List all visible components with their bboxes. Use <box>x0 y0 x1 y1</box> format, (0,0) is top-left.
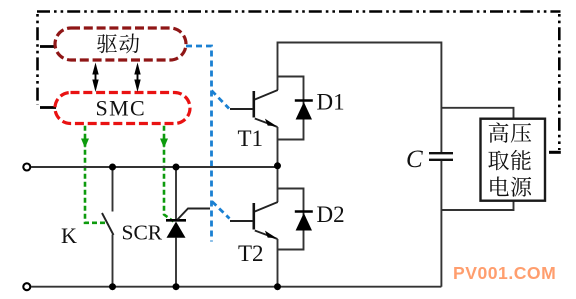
diode D2 triangle <box>296 213 312 231</box>
svg-text:PV001.COM: PV001.COM <box>453 263 556 283</box>
blue branch to T1 base <box>212 91 230 109</box>
text 驱动 <box>97 34 117 53</box>
svg-text:SCR: SCR <box>122 221 163 245</box>
capacitor lower wire <box>440 161 442 287</box>
junction dot (176,286.7) <box>173 283 180 290</box>
SCR cathode bar <box>166 219 186 222</box>
diode D1 triangle <box>296 102 312 120</box>
top wire from T1 collector to right branch <box>278 43 442 153</box>
connector stub to SMC block <box>40 106 56 109</box>
svg-text:SMC: SMC <box>95 96 146 121</box>
svg-text:D2: D2 <box>317 202 345 227</box>
junction dot (176,167) <box>173 164 180 171</box>
power box bottom wire <box>441 201 513 210</box>
bottom rail wire <box>31 286 441 288</box>
double-headed arrow 1 between drive and SMC <box>95 67 97 87</box>
transistor T2 emitter lead <box>255 231 278 240</box>
transistor T1 emitter lead <box>255 119 278 128</box>
capacitor C plate bottom <box>429 159 453 161</box>
blue drive line from drive block <box>186 46 212 242</box>
diode D2 cathode bar <box>295 210 313 213</box>
SMC block stadium <box>55 93 190 124</box>
svg-text:T1: T1 <box>238 126 264 151</box>
dash-dot boundary top <box>37 10 561 13</box>
switch K blade <box>102 213 114 235</box>
double-headed arrow 2 between drive and SMC <box>137 67 139 87</box>
transistor T2 emitter arrowhead <box>265 231 277 238</box>
junction dot (112.5,167) <box>109 164 116 171</box>
junction dot (112.5,286.7) <box>109 283 116 290</box>
switch K upper wire <box>112 167 114 212</box>
transistor T1 base bar <box>253 91 256 118</box>
dash-dot boundary right <box>558 14 561 150</box>
top rail wire <box>31 166 278 168</box>
junction dot (277.5,286.7) <box>274 283 281 290</box>
input terminal top <box>23 164 30 171</box>
green arrowhead 1 <box>81 139 89 149</box>
transistor T2 base bar <box>253 203 256 230</box>
drive block stadium <box>55 28 186 60</box>
junction dot (277.5,165.8) <box>274 162 281 169</box>
text 取能 <box>488 151 509 171</box>
transistor T2 base lead <box>230 220 253 222</box>
connector stub to drive block <box>40 45 56 48</box>
text 高压 <box>489 122 509 142</box>
switch K lower wire <box>112 235 114 287</box>
svg-text:C: C <box>406 146 423 173</box>
T2 collector wire from mid node <box>277 167 279 202</box>
T1 emitter wire to mid node <box>277 127 279 167</box>
diode D1 branch wire <box>278 77 304 140</box>
diode D2 branch wire <box>278 189 304 250</box>
diode D1 cathode bar <box>295 99 313 102</box>
dash-dot boundary left <box>36 14 39 105</box>
green control line to switch K <box>85 126 107 223</box>
transistor T1 collector lead <box>255 90 278 100</box>
T2 emitter wire to bottom rail <box>277 239 279 287</box>
svg-text:D1: D1 <box>317 90 345 115</box>
SCR triangle <box>167 222 186 238</box>
input terminal bottom <box>23 283 30 290</box>
SCR anode wire <box>175 238 177 287</box>
capacitor C plate top <box>429 152 453 154</box>
power box 高压取能电源 <box>481 119 546 201</box>
svg-text:K: K <box>61 223 77 248</box>
transistor T2 collector lead <box>255 202 278 212</box>
svg-text:T2: T2 <box>238 241 264 266</box>
text 电源 <box>490 176 508 196</box>
transistor T1 base lead <box>230 108 253 110</box>
SCR cathode wire <box>175 167 177 221</box>
boundary end hook bottom-right <box>549 151 561 154</box>
transistor T1 emitter arrowhead <box>265 119 277 126</box>
green arrowhead 2 <box>160 139 168 149</box>
green control line to SCR gate <box>164 126 174 222</box>
SCR gate wire <box>178 209 211 220</box>
power box top wire <box>441 108 513 119</box>
blue branch to T2 base <box>212 202 230 219</box>
